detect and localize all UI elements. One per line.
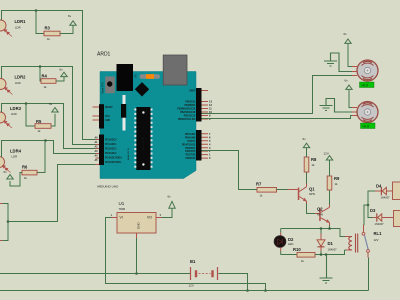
svg-text:PC4/ADC4/SDA: PC4/ADC4/SDA bbox=[105, 157, 122, 160]
svg-text:VI: VI bbox=[120, 216, 123, 220]
wire U1 VO to 6v bbox=[162, 209, 173, 218]
svg-text:Q2: Q2 bbox=[317, 207, 323, 212]
resistor R7 bbox=[256, 182, 277, 198]
svg-text:GND: GND bbox=[105, 120, 110, 122]
wire LDR3 top node to A2 bbox=[2, 104, 96, 149]
svg-text:6v: 6v bbox=[49, 102, 53, 106]
svg-text:VCC: VCC bbox=[105, 116, 110, 118]
wire junction down to R4 bbox=[40, 67, 41, 82]
power jack bbox=[117, 64, 134, 91]
svg-text:12V: 12V bbox=[324, 152, 329, 156]
transistor Q1 NPN bbox=[288, 184, 316, 204]
svg-text:12: 12 bbox=[209, 103, 212, 107]
svg-text:PC2/ADC2: PC2/ADC2 bbox=[105, 148, 117, 151]
ground (D1/R10) bbox=[320, 255, 333, 284]
svg-text:3: 3 bbox=[209, 146, 211, 150]
svg-text:PD2/INT0: PD2/INT0 bbox=[185, 151, 196, 153]
power 6v (motor M1) bbox=[344, 32, 352, 43]
wire R5 to 6v bbox=[51, 114, 55, 126]
ground (motor M1) bbox=[324, 53, 352, 72]
svg-text:R8: R8 bbox=[311, 157, 317, 162]
wire Q2 collector to R9 bbox=[329, 190, 331, 205]
motor M2 rpm readout bbox=[361, 123, 376, 129]
svg-text:PD7/AIN1: PD7/AIN1 bbox=[185, 133, 196, 136]
LDR3 LDR bbox=[0, 106, 22, 128]
wire left component loop bbox=[3, 204, 8, 241]
svg-text:R9: R9 bbox=[334, 176, 340, 181]
svg-text:7806: 7806 bbox=[119, 207, 126, 211]
svg-text:LDR2: LDR2 bbox=[15, 75, 27, 80]
svg-text:ON: ON bbox=[135, 74, 138, 78]
svg-text:6: 6 bbox=[209, 135, 211, 139]
board pin labels right upper bbox=[177, 90, 196, 122]
svg-text:PB2/SS/OC1B: PB2/SS/OC1B bbox=[180, 112, 196, 114]
wire 6v to R8 bbox=[306, 148, 308, 157]
resistor R4 bbox=[41, 74, 56, 90]
wire Q2 emitter down to node row bbox=[329, 226, 331, 229]
wire U1 VI to lower rail bbox=[106, 218, 266, 291]
svg-text:PC1/ADC1: PC1/ADC1 bbox=[105, 143, 117, 146]
node Q2 emitter junction bbox=[328, 227, 331, 230]
wire 6v to M2 bbox=[349, 89, 352, 107]
svg-text:R4: R4 bbox=[42, 74, 48, 79]
wire R6 left to 6v bbox=[10, 173, 22, 187]
node D3/D4 junction bbox=[367, 204, 370, 207]
svg-text:PC3/ADC3: PC3/ADC3 bbox=[105, 152, 117, 155]
resistor R8 bbox=[304, 157, 317, 172]
svg-text:VO: VO bbox=[147, 216, 152, 220]
wire R10 to D1 node bbox=[315, 250, 345, 255]
battery B1 12V bbox=[189, 259, 218, 288]
wire LDR1 top node to A0 bbox=[2, 11, 96, 140]
wire U1 GND to mid rail bbox=[136, 238, 138, 274]
svg-text:3: 3 bbox=[160, 213, 162, 217]
node left component junction bbox=[7, 220, 10, 223]
svg-text:6v: 6v bbox=[60, 68, 64, 72]
relay RL1 coil bbox=[345, 231, 382, 253]
reset button bbox=[105, 76, 115, 93]
svg-text:PB3/MOSI/OC2A: PB3/MOSI/OC2A bbox=[177, 108, 195, 111]
svg-text:12V: 12V bbox=[374, 238, 379, 242]
left edge component (off-screen) pins bbox=[0, 204, 3, 241]
svg-text:1k: 1k bbox=[44, 85, 48, 89]
svg-text:1k: 1k bbox=[335, 182, 339, 186]
svg-text:D3: D3 bbox=[370, 208, 376, 213]
svg-text:1N4007: 1N4007 bbox=[328, 247, 338, 251]
svg-text:PD6/AIN0: PD6/AIN0 bbox=[185, 136, 196, 139]
wire bottom rail bbox=[0, 290, 369, 292]
svg-text:6v: 6v bbox=[4, 170, 8, 174]
svg-text:U1: U1 bbox=[119, 201, 125, 206]
svg-text:4: 4 bbox=[209, 142, 211, 146]
svg-text:LDR3: LDR3 bbox=[10, 106, 22, 111]
diode D4 1N4007 bbox=[375, 184, 393, 200]
power 6v (LDR3) bbox=[49, 102, 58, 112]
resistor R6 bbox=[22, 164, 37, 180]
svg-text:13: 13 bbox=[209, 100, 212, 104]
svg-text:R3: R3 bbox=[45, 26, 51, 31]
relay RL1 switch bbox=[362, 225, 369, 258]
svg-text:PC0/ADC0: PC0/ADC0 bbox=[105, 139, 117, 142]
svg-text:Reset BTN: Reset BTN bbox=[102, 82, 105, 94]
node LDR4/R6 junction bbox=[44, 139, 47, 142]
svg-text:B1: B1 bbox=[190, 259, 196, 264]
node U1 GND junction bbox=[135, 272, 138, 275]
LDR4 LDR bbox=[0, 149, 22, 173]
node LDR1/R3 junction bbox=[35, 9, 38, 12]
svg-text:9: 9 bbox=[209, 114, 211, 118]
power 6v (U1 output) bbox=[168, 195, 176, 209]
wire pin2 to R7 bbox=[202, 151, 258, 190]
svg-text:D4: D4 bbox=[376, 184, 382, 189]
diode D3 1N4007 bbox=[370, 208, 394, 226]
svg-text:6v: 6v bbox=[344, 32, 348, 36]
svg-text:PD4/T0/XCK: PD4/T0/XCK bbox=[182, 143, 196, 146]
node D1 top junction bbox=[320, 227, 323, 230]
svg-text:1: 1 bbox=[209, 153, 211, 157]
node battery drop junction bbox=[246, 289, 249, 292]
wire 12V to R9 bbox=[329, 160, 331, 176]
terminal box (D4, right edge) bbox=[393, 182, 400, 200]
svg-text:6v: 6v bbox=[345, 79, 349, 83]
USB connector bbox=[163, 55, 187, 85]
wire relay switch top to D3/D4 junction bbox=[364, 205, 369, 225]
node ground stem junction bbox=[325, 253, 328, 256]
power 6v (LDR2) bbox=[60, 68, 68, 77]
svg-text:A4: A4 bbox=[94, 155, 98, 158]
ground (motor M2) bbox=[320, 99, 353, 113]
board pin labels right lower bbox=[182, 133, 196, 160]
svg-text:PD3/INT1: PD3/INT1 bbox=[185, 148, 196, 150]
wire 6v to M1 bbox=[348, 43, 352, 66]
LDR1 LDR bbox=[0, 19, 26, 37]
terminal box (D3, right edge) bbox=[394, 211, 400, 227]
svg-text:8: 8 bbox=[209, 117, 211, 121]
svg-text:0: 0 bbox=[209, 156, 211, 160]
svg-text:LDR: LDR bbox=[11, 112, 17, 116]
svg-text:R7: R7 bbox=[256, 182, 262, 187]
wire junction to D4 bbox=[368, 191, 375, 205]
resistor R5 bbox=[35, 119, 51, 133]
wire junction to D3 bbox=[368, 205, 373, 218]
svg-text:LDR: LDR bbox=[12, 154, 18, 158]
right pin headers bbox=[196, 88, 202, 122]
svg-text:PD5/T1: PD5/T1 bbox=[188, 141, 197, 143]
svg-text:D1: D1 bbox=[328, 241, 334, 246]
svg-text:LED: LED bbox=[288, 242, 293, 246]
svg-text:PB4/MISO: PB4/MISO bbox=[184, 104, 195, 107]
node D1 bottom junction bbox=[320, 253, 323, 256]
svg-text:5: 5 bbox=[209, 139, 211, 143]
pin numbers right bbox=[209, 100, 212, 161]
pin stubs left bbox=[93, 107, 100, 165]
svg-text:LDR: LDR bbox=[15, 26, 21, 30]
wire junction down to R5 bbox=[26, 104, 35, 127]
svg-text:6v: 6v bbox=[303, 137, 307, 141]
svg-text:RL1: RL1 bbox=[374, 231, 383, 236]
svg-text:PB1/OC1A: PB1/OC1A bbox=[184, 115, 196, 118]
svg-text:1k: 1k bbox=[301, 259, 305, 263]
motor M1 bbox=[352, 60, 378, 81]
svg-text:1k: 1k bbox=[312, 163, 316, 167]
svg-text:GND: GND bbox=[137, 222, 141, 230]
transistor Q2 NPN bbox=[315, 205, 330, 226]
wire node row D2/D1/relay bbox=[281, 229, 345, 237]
left pin headers bbox=[99, 104, 104, 128]
svg-text:LDR: LDR bbox=[15, 81, 21, 85]
svg-text:RESET: RESET bbox=[105, 107, 113, 109]
net labels A0-A5 bbox=[94, 137, 98, 163]
svg-text:ATMEGA328P: ATMEGA328P bbox=[142, 136, 145, 150]
svg-text:NPN: NPN bbox=[317, 212, 323, 216]
wire D2 to R10 bbox=[281, 254, 298, 256]
resistor R10 bbox=[293, 247, 315, 263]
wire relay switch bottom to bottom rail bbox=[368, 258, 370, 291]
wire junction down to R6 right bbox=[37, 141, 45, 173]
svg-text:R6: R6 bbox=[22, 164, 28, 169]
diamond logo bbox=[135, 82, 149, 96]
wire LDR2 top node to A1 bbox=[2, 67, 96, 145]
svg-text:1N4007: 1N4007 bbox=[375, 222, 385, 226]
wire Q1 collector to R8 bbox=[306, 172, 308, 184]
node U1 feed junction bbox=[264, 289, 267, 292]
wire junction down to R3 bbox=[36, 11, 44, 34]
svg-text:12V: 12V bbox=[189, 284, 194, 288]
svg-text:1N4007: 1N4007 bbox=[381, 196, 391, 200]
voltage regulator U1 7806 bbox=[111, 201, 162, 238]
power 12V (R9) bbox=[324, 152, 333, 161]
motor M2 bbox=[352, 102, 378, 123]
svg-text:R10: R10 bbox=[293, 247, 301, 252]
wire R3 to 6v bbox=[60, 25, 73, 34]
svg-text:ANALOG IN: ANALOG IN bbox=[127, 148, 130, 160]
svg-text:A5: A5 bbox=[94, 159, 98, 162]
wire Q1 emitter to Q2 base bbox=[307, 204, 316, 214]
wire battery right to bottom rail bbox=[219, 274, 248, 291]
svg-text:AREF: AREF bbox=[189, 90, 196, 93]
svg-text:LDR4: LDR4 bbox=[10, 149, 22, 154]
pin stubs right bbox=[202, 91, 209, 159]
svg-text:1: 1 bbox=[111, 213, 113, 217]
Arduino board bbox=[99, 55, 202, 179]
svg-text:+0.0: +0.0 bbox=[362, 125, 369, 129]
svg-text:LDR1: LDR1 bbox=[15, 19, 27, 24]
wire LDR4 top node to A3 bbox=[2, 141, 96, 158]
power 6v (motor M2) bbox=[345, 79, 353, 90]
power 6v (LDR1) bbox=[68, 14, 76, 25]
power LED bar bbox=[140, 74, 161, 79]
ATmega328 chip bbox=[136, 107, 150, 170]
power 6v (R8) bbox=[303, 137, 310, 148]
svg-text:2: 2 bbox=[209, 149, 211, 153]
svg-text:+0.0: +0.0 bbox=[361, 84, 368, 88]
board pin labels left bbox=[105, 107, 122, 164]
svg-text:PD1/TXD: PD1/TXD bbox=[186, 155, 196, 157]
wire R7 to Q1 base bbox=[277, 189, 288, 191]
wire pin8 to motor M2 bbox=[202, 116, 353, 119]
svg-text:6v: 6v bbox=[68, 14, 72, 18]
svg-text:A3: A3 bbox=[94, 150, 98, 153]
wire mid rail (battery +) bbox=[0, 273, 190, 275]
LED D2 bbox=[274, 229, 294, 255]
svg-text:1k: 1k bbox=[47, 37, 51, 41]
svg-text:1k: 1k bbox=[38, 129, 42, 133]
svg-text:NPN: NPN bbox=[309, 192, 315, 196]
svg-text:1k: 1k bbox=[260, 194, 264, 198]
wire pin10 to motor M1 bbox=[202, 76, 353, 114]
svg-text:PC5/ADC5/SCL: PC5/ADC5/SCL bbox=[105, 161, 122, 164]
svg-text:A1: A1 bbox=[94, 141, 98, 144]
power 6v (LDR4) bbox=[4, 170, 14, 179]
wire left component to A5 bbox=[8, 165, 96, 222]
resistor R9 bbox=[327, 176, 340, 190]
wire relay coil bottom to node row bbox=[345, 249, 347, 251]
svg-text:PD0/RXD: PD0/RXD bbox=[185, 158, 195, 160]
wire R4 to 6v bbox=[56, 77, 64, 82]
svg-text:Q1: Q1 bbox=[309, 187, 315, 192]
svg-text:11: 11 bbox=[209, 107, 212, 111]
svg-text:7: 7 bbox=[209, 132, 211, 136]
LDR2 LDR bbox=[0, 75, 26, 95]
svg-text:R5: R5 bbox=[36, 119, 42, 124]
node LDR2/R4 junction bbox=[39, 65, 42, 68]
svg-text:PB5/SCK: PB5/SCK bbox=[185, 102, 195, 104]
diode D1 1N4007 bbox=[317, 229, 337, 255]
svg-text:ARD1: ARD1 bbox=[97, 52, 111, 58]
regulator strip bbox=[123, 95, 126, 131]
resistor R3 bbox=[44, 26, 60, 42]
svg-text:6v: 6v bbox=[168, 195, 172, 199]
svg-text:PB0/ICP1/CLKO: PB0/ICP1/CLKO bbox=[178, 119, 196, 121]
svg-text:ARDUINO UNO: ARDUINO UNO bbox=[97, 185, 119, 189]
svg-text:1k: 1k bbox=[24, 176, 28, 180]
node LDR3/R5 junction bbox=[25, 102, 28, 105]
motor M1 rpm readout bbox=[360, 82, 375, 88]
